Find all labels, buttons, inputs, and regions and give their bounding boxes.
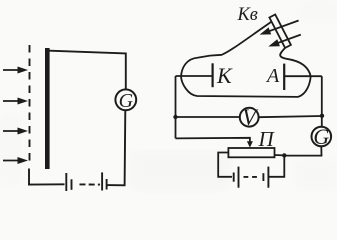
wire (A lead to right corner) [285,75,322,77]
light arrow 4 [3,157,28,164]
node (junction dot at battery branch) [282,153,286,157]
battery B1 cell1 short electrode [71,179,73,190]
wire (bottom left segment) [28,183,65,185]
wire (rheostat left lead) [218,153,232,177]
galvanometer G2 [312,124,332,149]
wire (battery right lead up to junction) [268,155,284,176]
battery B2 cell1 short electrode [233,173,235,182]
cathode K plate [212,63,214,87]
phototube envelope right neck [280,48,311,77]
svg-text:П: П [258,127,276,151]
wire (mesh lead down to bottom wire) [28,169,30,185]
anode A plate [283,64,285,90]
wire (dashed between cells) [244,176,258,178]
battery B2 cell2 long electrode [267,167,269,188]
phototube envelope bottom [181,76,311,97]
wire (K lead) [176,75,212,77]
wire (slider feed) [176,138,250,143]
light ray arrow 2 [268,35,301,47]
battery B2 cell2 short electrode [262,173,264,181]
svg-text:К: К [216,63,233,88]
battery B1 cell2 long electrode [101,172,103,190]
battery B1 cell1 long electrode [65,173,67,191]
svg-text:A: A [265,65,280,87]
phototube envelope [181,22,271,77]
light arrow 2 [3,98,28,105]
light ray arrow 1 [260,21,299,35]
rheostat П body [228,148,274,157]
wire (voltmeter row right) [259,116,322,117]
wire (top, plate to right side) [46,51,126,54]
svg-text:G: G [313,124,329,149]
node (junction dot left) [173,115,177,119]
wire (right side, top corner to galvanometer) [125,53,127,90]
slider arrow [247,141,253,147]
wire (galvanometer to bottom right corner) [124,110,127,185]
svg-text:G: G [119,90,134,112]
plate electrode (photocathode) [45,48,50,169]
voltmeter V [240,105,259,130]
wire (G down to bottom row) [284,146,321,155]
light arrow 1 [3,67,28,74]
wire (dashed between cells) [80,183,101,185]
svg-text:Кв: Кв [237,5,258,25]
wire (right vertical, A corner to G) [321,76,323,126]
light arrow 3 [3,128,28,135]
battery B1 cell2 short electrode [106,179,108,190]
svg-text:V: V [242,105,259,130]
galvanometer G1 [115,89,136,112]
wire (junction to rheostat right end) [275,154,285,156]
quartz window (tilted slab) [269,15,291,48]
mesh electrode (dashed line) [29,45,31,163]
wire (left vertical from K) [175,76,177,138]
node (junction dot right) [320,114,324,118]
wire (bottom right segment to battery) [107,184,126,186]
wire (voltmeter row left) [176,116,240,118]
battery B2 cell1 long electrode [238,167,240,188]
